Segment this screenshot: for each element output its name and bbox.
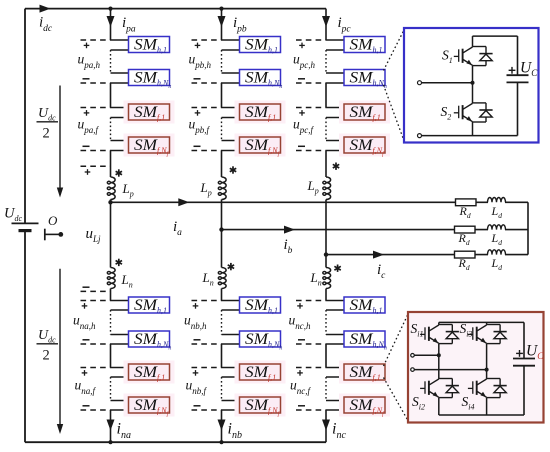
IGBT S_i1 bbox=[428, 327, 430, 341]
phase c upper arm wires and SM chain bbox=[326, 39, 344, 41]
full-bridge bottom rail bbox=[439, 414, 524, 416]
u_Lj minus marker bbox=[81, 290, 111, 292]
phase b lower arm wires and SM chain bbox=[222, 300, 240, 302]
phase a lower arm leg from node bbox=[110, 202, 112, 267]
phase b lower arm SM modules bbox=[240, 297, 281, 313]
phase c upper arm SM modules SM_h1 SM_hN SM_f1 SM_fN bbox=[344, 37, 385, 53]
phase b upper arm SM modules SM_h1 SM_hN SM_f1 SM_fN bbox=[240, 37, 281, 53]
arrow i_nc bbox=[322, 420, 330, 431]
full-bridge input terminal lower bbox=[411, 368, 415, 372]
arm inductor Ln phase a bbox=[107, 268, 115, 289]
leader lines to full-bridge inset bbox=[384, 313, 409, 366]
phase b lower arm voltage polarity markers bbox=[192, 300, 222, 302]
full-bridge top rail bbox=[439, 321, 524, 323]
input terminal lower bbox=[418, 134, 422, 138]
bottom bus junction dots bbox=[108, 440, 112, 444]
phase c upper arm voltage polarity markers bbox=[296, 39, 326, 41]
load resistor R_d line 3 bbox=[455, 251, 476, 258]
arrow i_dc on top bus bbox=[40, 5, 51, 13]
midpoint node dot bbox=[471, 81, 475, 85]
lower half dc voltage arrow U_dc/2 bbox=[59, 269, 61, 430]
phase output line c bbox=[326, 254, 528, 256]
half-bridge midpoint wire bbox=[472, 66, 474, 104]
arrow i_a bbox=[178, 198, 189, 206]
IGBT S1 bbox=[462, 49, 464, 63]
bottom DC bus bbox=[25, 441, 326, 443]
left bridge leg bbox=[438, 322, 440, 324]
full-bridge inset box bbox=[408, 312, 544, 423]
node b junction dot bbox=[219, 227, 223, 231]
phase c lower arm wires and SM chain bbox=[326, 300, 344, 302]
u_Lj plus marker bbox=[81, 165, 111, 167]
phase a lower arm SM modules bbox=[129, 297, 170, 313]
IGBT S_i2 bbox=[428, 381, 430, 395]
node a junction dot bbox=[108, 200, 112, 204]
svg-text:O: O bbox=[48, 213, 58, 228]
load star-point bus bbox=[527, 202, 529, 254]
IGBT S_i3 bbox=[476, 327, 478, 341]
phase c lower arm voltage polarity markers bbox=[296, 300, 326, 302]
phase a lower arm wires and SM chain bbox=[111, 300, 129, 302]
svg-text:2: 2 bbox=[43, 126, 50, 142]
left DC-link rail bbox=[24, 9, 26, 224]
arm inductor Lp phase c bbox=[323, 177, 331, 200]
phase c lower arm leg from node bbox=[325, 255, 327, 268]
capacitor U_C half-bridge bbox=[517, 36, 519, 75]
phase a upper arm wires and SM chain bbox=[111, 39, 129, 41]
phase a upper arm SM modules SM_h1 SM_hN SM_f1 SM_fN bbox=[129, 37, 170, 53]
phase b upper arm: i_pb arrow bbox=[221, 9, 223, 40]
phase output line b bbox=[222, 229, 529, 231]
DC source battery U_dc bbox=[12, 222, 39, 224]
svg-text:2: 2 bbox=[43, 348, 50, 364]
leader lines to half-bridge inset bbox=[384, 29, 405, 71]
half-bridge top rail bbox=[473, 35, 518, 37]
full-bridge input terminal upper bbox=[411, 354, 415, 358]
phase a lower arm voltage polarity markers bbox=[81, 300, 111, 302]
IGBT S_i4 bbox=[476, 381, 478, 395]
capacitor U_C full-bridge bbox=[523, 322, 525, 358]
load inductor L_d line 2 bbox=[488, 228, 505, 232]
half-bridge inset box bbox=[404, 28, 539, 143]
IGBT S2 bbox=[462, 105, 464, 119]
phase b upper arm wires and SM chain bbox=[222, 39, 240, 41]
load inductor L_d line 3 bbox=[488, 253, 505, 257]
top DC bus bbox=[25, 8, 326, 10]
phase b lower arm leg from node bbox=[221, 230, 223, 268]
phase a upper arm: i_pa arrow bbox=[110, 9, 112, 40]
arm inductor Lp phase a bbox=[107, 177, 115, 200]
input terminal upper bbox=[418, 81, 422, 85]
arm inductor Ln phase c bbox=[323, 268, 331, 289]
arrow i_nb bbox=[218, 420, 226, 431]
phase c upper arm: i_pc arrow bbox=[325, 9, 327, 40]
arrow i_na bbox=[107, 420, 115, 431]
phase a upper arm voltage polarity markers bbox=[81, 39, 111, 41]
arm inductor Lp phase b bbox=[218, 177, 226, 200]
load resistor R_d line 1 bbox=[456, 199, 477, 206]
arm inductor Ln phase b bbox=[218, 268, 226, 289]
half-bridge bottom rail bbox=[472, 122, 474, 136]
phase c lower arm SM modules bbox=[344, 297, 385, 313]
node c junction dot bbox=[324, 252, 328, 256]
arrow i_c bbox=[373, 251, 384, 259]
top bus junction dots bbox=[108, 7, 112, 11]
phase output line a bbox=[111, 201, 529, 203]
right bridge leg bbox=[486, 322, 488, 324]
upper half dc voltage arrow U_dc/2 bbox=[59, 86, 61, 194]
phase b upper arm voltage polarity markers bbox=[192, 39, 222, 41]
arrow i_b bbox=[284, 226, 295, 234]
load inductor L_d line 1 bbox=[488, 200, 505, 204]
load resistor R_d line 2 bbox=[455, 226, 476, 233]
